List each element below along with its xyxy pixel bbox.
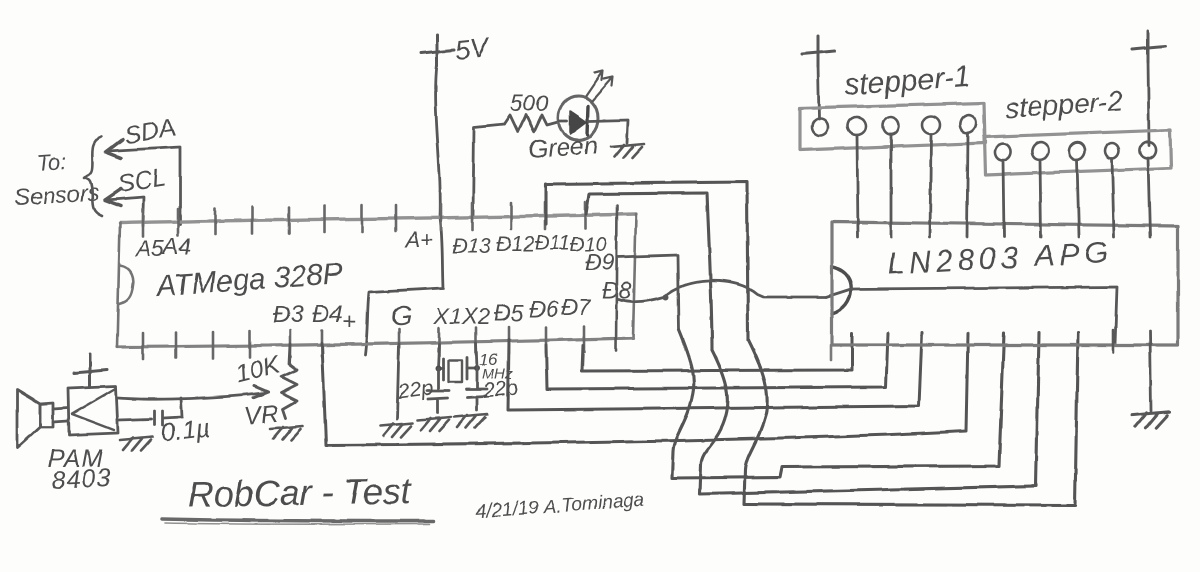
wire stepper1 pin3 to ULN xyxy=(890,135,893,237)
wire stepper2 pin4 to ULN xyxy=(1112,159,1114,237)
svg-text:Đ13: Đ13 xyxy=(452,235,491,258)
connector stepper-2 box xyxy=(984,130,1171,175)
svg-text:SCL: SCL xyxy=(116,163,168,197)
svg-text:Đ9: Đ9 xyxy=(585,249,615,275)
svg-text:500: 500 xyxy=(510,90,549,116)
stepper1 hole 2 xyxy=(846,115,868,137)
wire D11 over-top route xyxy=(546,182,748,340)
svg-text:LN2803 APG: LN2803 APG xyxy=(887,236,1114,281)
LED diode triangle xyxy=(570,111,586,134)
wire power to stepper2 circle5 xyxy=(1148,60,1149,145)
ground LED xyxy=(611,144,644,158)
wire 5V rail inside ATMega from A+ to + pin xyxy=(365,218,443,355)
speaker SP1 cone xyxy=(17,390,40,448)
power cross stepper-2 xyxy=(1132,31,1165,62)
ATMega top pin ticks xyxy=(143,202,585,236)
wire D5 to ULN pin3 xyxy=(508,333,922,410)
power cross stepper-1 xyxy=(802,36,835,67)
power 5V cross xyxy=(421,35,454,66)
ground C2 xyxy=(454,414,487,428)
stepper1 hole 4 xyxy=(922,116,940,134)
stepper2 hole 3 xyxy=(1067,140,1087,162)
wire curve D11 to ULN pin7 xyxy=(744,333,1078,505)
stepper2 hole 1 xyxy=(993,142,1013,163)
svg-text:A4: A4 xyxy=(161,233,191,259)
wire LED to ground xyxy=(559,120,628,143)
svg-text:X2: X2 xyxy=(461,303,490,329)
svg-text:Đ11: Đ11 xyxy=(535,232,570,254)
svg-text:0.1µ: 0.1µ xyxy=(160,414,212,447)
svg-text:Đ5: Đ5 xyxy=(494,300,524,326)
svg-text:To:: To: xyxy=(36,149,67,176)
ground ULN pin9 xyxy=(1132,412,1170,428)
stepper1 hole 1 xyxy=(812,119,828,136)
wire stepper2 pin2 to ULN xyxy=(1040,160,1041,237)
wire stepper1 pin2 to ULN xyxy=(857,135,858,237)
LED diode cathode bar xyxy=(587,106,588,134)
svg-text:X1: X1 xyxy=(433,303,462,329)
stepper1 hole 3 xyxy=(883,117,899,135)
wire X1 down to crystal node xyxy=(438,344,443,368)
svg-text:ATMega 328P: ATMega 328P xyxy=(153,257,344,303)
crystal Y1 body box xyxy=(448,360,462,382)
crystal Y1 left bar xyxy=(442,358,445,380)
wire D8 inside ULN to pin8 xyxy=(826,287,1117,345)
stepper1 hole 5 xyxy=(957,113,978,135)
wire PAM power stub xyxy=(89,380,92,387)
wire curve D9 to ULN pin5 xyxy=(672,330,1004,478)
op-amp U2 ULN2803 box xyxy=(832,222,1178,345)
LED light arrows xyxy=(586,71,603,96)
svg-text:10K: 10K xyxy=(233,351,284,389)
wire D4 to ULN pin4 xyxy=(322,333,968,445)
node junction on D8 wire xyxy=(663,294,669,300)
capacitor C2 22p right xyxy=(466,368,487,410)
wire PAM to VR wiper arrow xyxy=(118,393,264,399)
stepper2 hole 4 xyxy=(1105,143,1119,159)
svg-text:Đ6: Đ6 xyxy=(529,296,559,322)
ATMega left edge xyxy=(117,223,120,347)
capacitor 0.1u plates xyxy=(155,411,163,425)
wire stepper1 pin4 to ULN xyxy=(930,134,931,237)
svg-text:A+: A+ xyxy=(404,227,434,252)
wire D10 over-top route xyxy=(586,193,712,350)
node X1 junction xyxy=(435,365,441,371)
LED D1 circle xyxy=(558,96,598,140)
wire crystal to X2 node xyxy=(467,367,477,370)
wire SDA to A4 with arrow xyxy=(107,147,180,224)
svg-text:Đ12: Đ12 xyxy=(496,233,535,256)
capacitor 0.1u wire left xyxy=(118,419,152,420)
svg-text:Đ4: Đ4 xyxy=(312,301,343,328)
crystal Y1 right bar xyxy=(466,357,469,379)
ground C1 xyxy=(418,417,451,431)
wire G pin to ground xyxy=(397,344,399,419)
resistor VR 10K zigzag xyxy=(281,344,297,418)
wire D8-D9 pin stub vertical xyxy=(616,205,617,351)
svg-text:4/21/19 A.Tominaga: 4/21/19 A.Tominaga xyxy=(475,490,645,523)
svg-text:A5: A5 xyxy=(134,235,164,261)
speaker body rect xyxy=(40,403,53,427)
wire X2 down to node xyxy=(476,343,477,368)
title underline xyxy=(162,519,434,521)
svg-text:VR: VR xyxy=(243,399,280,430)
brace left of sensors xyxy=(84,137,102,216)
wire power to stepper1 circle1 xyxy=(818,64,819,119)
wire curve D10 to ULN pin6 xyxy=(700,333,1039,494)
resistor R 500 xyxy=(504,115,558,132)
wire D13 up to resistor xyxy=(473,124,504,218)
wire D8 with crossover hop xyxy=(618,281,826,302)
capacitor C1 22p left xyxy=(427,368,449,413)
svg-text:22p: 22p xyxy=(481,376,519,403)
svg-text:Đ3: Đ3 xyxy=(273,301,304,328)
wire speaker to PAM double stub xyxy=(53,408,68,422)
connector stepper-1 box xyxy=(800,103,985,150)
ATMega bottom pin ticks xyxy=(143,326,584,359)
svg-text:Green: Green xyxy=(527,131,598,164)
svg-text:5V: 5V xyxy=(453,32,492,66)
svg-text:Sensors: Sensors xyxy=(14,180,100,210)
svg-text:8403: 8403 xyxy=(51,464,112,495)
wire stepper2 pin3 to ULN xyxy=(1077,160,1079,237)
power cross PAM xyxy=(74,355,107,386)
ATMega notch xyxy=(119,266,133,304)
node X2 junction xyxy=(474,365,480,371)
wire cap to wiper line xyxy=(164,398,182,418)
ground VR xyxy=(270,426,303,440)
PAM triangle xyxy=(72,389,115,430)
wire 5V down to A+ pin xyxy=(436,64,441,218)
ULN bottom-left corner stub xyxy=(830,345,833,360)
wire stepper2 pin5 to ULN xyxy=(1148,158,1150,237)
svg-text:Đ7: Đ7 xyxy=(561,294,592,320)
ATMega bottom edge xyxy=(117,338,633,347)
wire D7 to ULN pin1 xyxy=(582,333,852,371)
wire SCL to A5 with arrow xyxy=(106,197,144,226)
wire D6 to ULN pin2 xyxy=(546,333,888,389)
ground PAM xyxy=(120,437,153,451)
svg-text:SDA: SDA xyxy=(122,113,177,150)
svg-text:stepper-1: stepper-1 xyxy=(843,60,971,102)
ATMega right edge xyxy=(633,214,636,338)
op-amp U1 ATMega328P box top edge xyxy=(120,214,636,223)
svg-text:+: + xyxy=(342,308,356,335)
amplifier PAM8403 box xyxy=(68,386,118,435)
ground G pin xyxy=(380,423,413,437)
wire ULN pin9 to ground xyxy=(1150,331,1151,411)
ULN bottom pin8 tick xyxy=(1112,330,1115,352)
svg-text:G: G xyxy=(391,301,412,331)
ULN notch on left edge xyxy=(832,267,851,314)
svg-text:RobCar - Test: RobCar - Test xyxy=(187,470,412,515)
svg-text:stepper-2: stepper-2 xyxy=(1004,85,1124,124)
wire D9 to bus riser xyxy=(617,255,679,330)
wire stepper2 pin1 to ULN xyxy=(1003,160,1004,237)
stepper2 hole 5 xyxy=(1138,139,1159,160)
stepper2 hole 2 xyxy=(1029,140,1050,162)
wire stepper1 pin5 to ULN xyxy=(967,133,968,237)
